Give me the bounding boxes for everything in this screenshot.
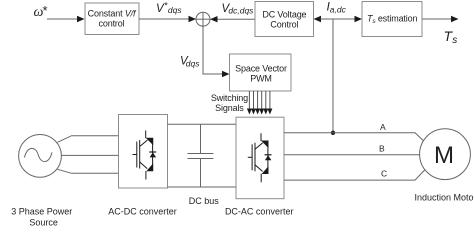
svg-text:Control: Control	[270, 20, 298, 30]
svg-text:DC Voltage: DC Voltage	[262, 10, 306, 20]
wire V*dqs from Constant V/f to summing junction	[139, 16, 196, 22]
svg-text:Constant V/f: Constant V/f	[88, 9, 137, 19]
svg-text:B: B	[379, 144, 385, 154]
induction motor	[420, 129, 471, 180]
svg-text:dc,dqs: dc,dqs	[228, 6, 254, 16]
svg-text:Ts estimation: Ts estimation	[367, 14, 417, 26]
svg-text:a,dc: a,dc	[330, 5, 347, 15]
wire omega* to Constant V/f block	[47, 16, 85, 22]
label Vdqs	[180, 56, 200, 69]
block Constant V/f control	[85, 3, 139, 35]
svg-text:dqs: dqs	[168, 5, 182, 15]
svg-text:DC bus: DC bus	[189, 196, 220, 206]
svg-text:s: s	[452, 35, 457, 46]
summing junction	[196, 12, 210, 26]
wire Ia,dc vertical tap from phase A	[331, 19, 335, 135]
wire Ia,dc horizontal with arrows into both blocks	[314, 16, 363, 22]
label Vdc,dqs	[222, 3, 255, 16]
svg-text:AC-DC converter: AC-DC converter	[108, 207, 177, 217]
wire Vdc,dqs from DC Voltage Control to summing junction	[210, 16, 255, 22]
capacitor DC bus	[188, 124, 214, 187]
svg-text:PWM: PWM	[250, 74, 272, 84]
switching signal arrows (6)	[247, 91, 273, 115]
label V*dqs	[156, 0, 182, 15]
svg-text:*: *	[43, 3, 48, 18]
wire phase C	[284, 169, 425, 181]
svg-text:Space Vector: Space Vector	[235, 64, 287, 74]
wire phase B	[284, 144, 420, 155]
svg-text:Induction Motor: Induction Motor	[415, 192, 474, 202]
label Switching Signals	[211, 93, 248, 113]
svg-text:dqs: dqs	[186, 59, 200, 69]
svg-text:3 Phase Power: 3 Phase Power	[11, 206, 72, 216]
svg-text:Signals: Signals	[215, 103, 244, 113]
wire phase A	[284, 122, 424, 141]
wire Vdqs from summing junction to Space Vector PWM	[203, 26, 230, 77]
IGBT with antiparallel diode (DC-AC converter)	[248, 133, 272, 182]
svg-text:M: M	[434, 142, 454, 169]
wire Ts output arrow	[422, 16, 459, 22]
label Ia,dc	[327, 0, 347, 15]
block Ts estimation	[362, 2, 422, 37]
svg-text:control: control	[99, 19, 125, 29]
label 3 Phase Power Source	[11, 206, 72, 227]
block DC Voltage Control	[255, 2, 314, 37]
DC bus rails	[168, 124, 237, 187]
block AC-DC converter	[119, 115, 168, 189]
label omega* reference input	[34, 3, 48, 20]
label Ts output	[444, 28, 458, 46]
svg-text:DC-AC converter: DC-AC converter	[225, 207, 294, 217]
svg-text:Source: Source	[29, 217, 58, 227]
IGBT with antiparallel diode (AC-DC converter)	[133, 131, 157, 180]
block Space Vector PWM	[230, 54, 292, 91]
svg-text:C: C	[381, 169, 387, 179]
svg-text:A: A	[380, 122, 386, 132]
svg-text:Switching: Switching	[211, 93, 248, 103]
wires source to AC-DC converter (3 lines)	[58, 136, 119, 174]
block DC-AC converter	[236, 117, 284, 199]
AC source 3-phase circle	[19, 135, 62, 178]
